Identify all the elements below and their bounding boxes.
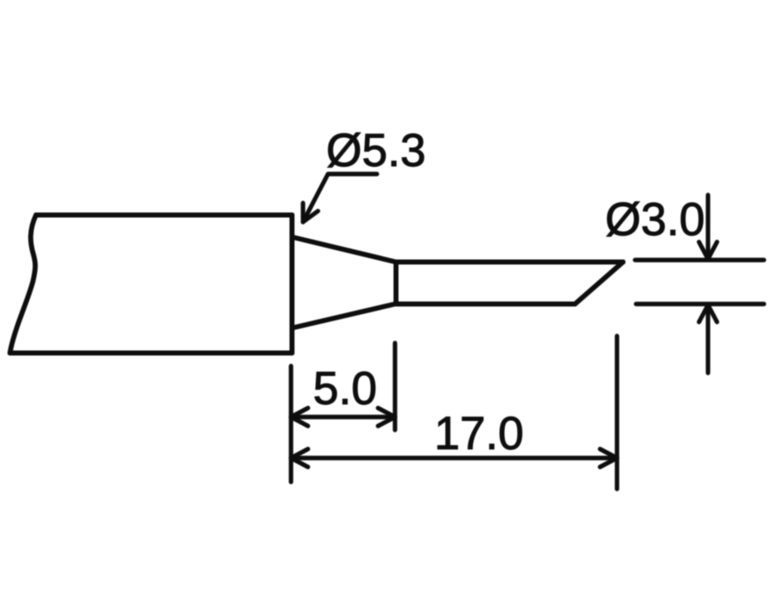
leader arrowhead — [303, 203, 318, 222]
dia 3.0 lower extension line — [636, 302, 764, 306]
taper cone top line — [292, 237, 396, 262]
dia 3.0 lower arrowhead (up) — [699, 305, 717, 322]
barrel body bottom edge — [10, 351, 292, 356]
leader line for diameter 5.3 — [303, 174, 377, 222]
extension line at taper neck x=395 — [393, 343, 397, 430]
dia 3.0 upper extension line — [635, 258, 764, 262]
blade tip top edge — [396, 260, 623, 265]
svg-text:Ø3.0: Ø3.0 — [605, 193, 705, 245]
dia 3.0 upper arrowhead (down) — [699, 242, 717, 259]
barrel break line (wavy left edge) — [10, 215, 36, 353]
dim 17.0 dimension line — [291, 456, 617, 460]
svg-text:Ø5.3: Ø5.3 — [326, 124, 426, 176]
dim 5.0 dimension line — [291, 415, 395, 419]
taper cone bottom line — [292, 304, 395, 328]
barrel body right edge — [290, 215, 295, 353]
taper neck vertical — [394, 262, 399, 304]
svg-text:17.0: 17.0 — [434, 407, 524, 459]
blade tip bevel edge — [575, 262, 623, 304]
dim 5.0 left arrowhead — [291, 408, 308, 426]
dim 17.0 left arrowhead — [291, 449, 308, 467]
dim 5.0 right arrowhead — [378, 408, 395, 426]
dim 17.0 right arrowhead — [600, 449, 617, 467]
dia 3.0 lower dimension line — [706, 307, 710, 373]
svg-text:5.0: 5.0 — [313, 362, 377, 414]
dia 3.0 upper dimension line — [706, 195, 710, 257]
barrel body top edge — [36, 213, 292, 218]
extension line at shoulder x=291 — [289, 366, 293, 482]
blade tip bottom edge — [396, 302, 575, 307]
extension line at blade end x=617 — [615, 336, 619, 489]
